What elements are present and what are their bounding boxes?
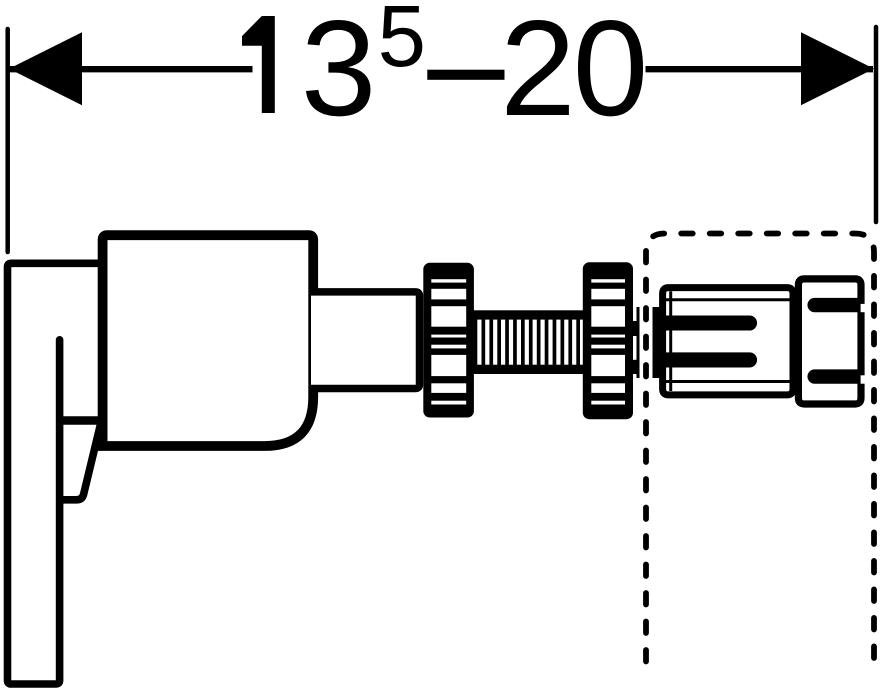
dimension line left segment	[9, 66, 253, 72]
cap bar 2	[807, 369, 861, 383]
slider housing	[663, 288, 793, 395]
end cap	[798, 279, 861, 404]
dimension text digit 1	[242, 16, 275, 113]
latch flag	[60, 423, 101, 500]
svg-text:0: 0	[573, 0, 649, 144]
left extension line	[5, 29, 10, 252]
knurled nut 1	[423, 263, 474, 418]
white halo of dashed line over connector	[640, 250, 653, 663]
threaded rod bottom band	[466, 365, 590, 374]
svg-text:2: 2	[500, 0, 576, 144]
prong 1	[652, 315, 750, 330]
dashed wall outline	[646, 234, 874, 662]
lever handle outline	[8, 263, 105, 684]
left arrowhead	[9, 32, 82, 105]
prong 2	[652, 352, 750, 367]
cap notch 1	[861, 304, 867, 312]
ledge on handle	[58, 416, 102, 424]
dimension text dash	[427, 70, 504, 80]
threaded rod top band	[466, 310, 590, 319]
svg-text:3: 3	[301, 0, 377, 144]
right arrowhead	[801, 32, 874, 105]
dimension line right segment	[646, 66, 874, 72]
main body	[98, 235, 314, 446]
housing inner left line	[669, 291, 672, 391]
knurled nut 2	[583, 262, 633, 419]
housing inner top line	[666, 298, 793, 301]
right extension line	[874, 27, 879, 222]
neck	[311, 292, 420, 389]
thread lines	[474, 316, 580, 368]
svg-text:5: 5	[378, 0, 426, 85]
cap bar 1	[807, 298, 861, 312]
cap notch 2	[861, 375, 867, 383]
ball connector between rod and slider	[632, 307, 660, 378]
housing inner bottom line	[666, 380, 793, 383]
